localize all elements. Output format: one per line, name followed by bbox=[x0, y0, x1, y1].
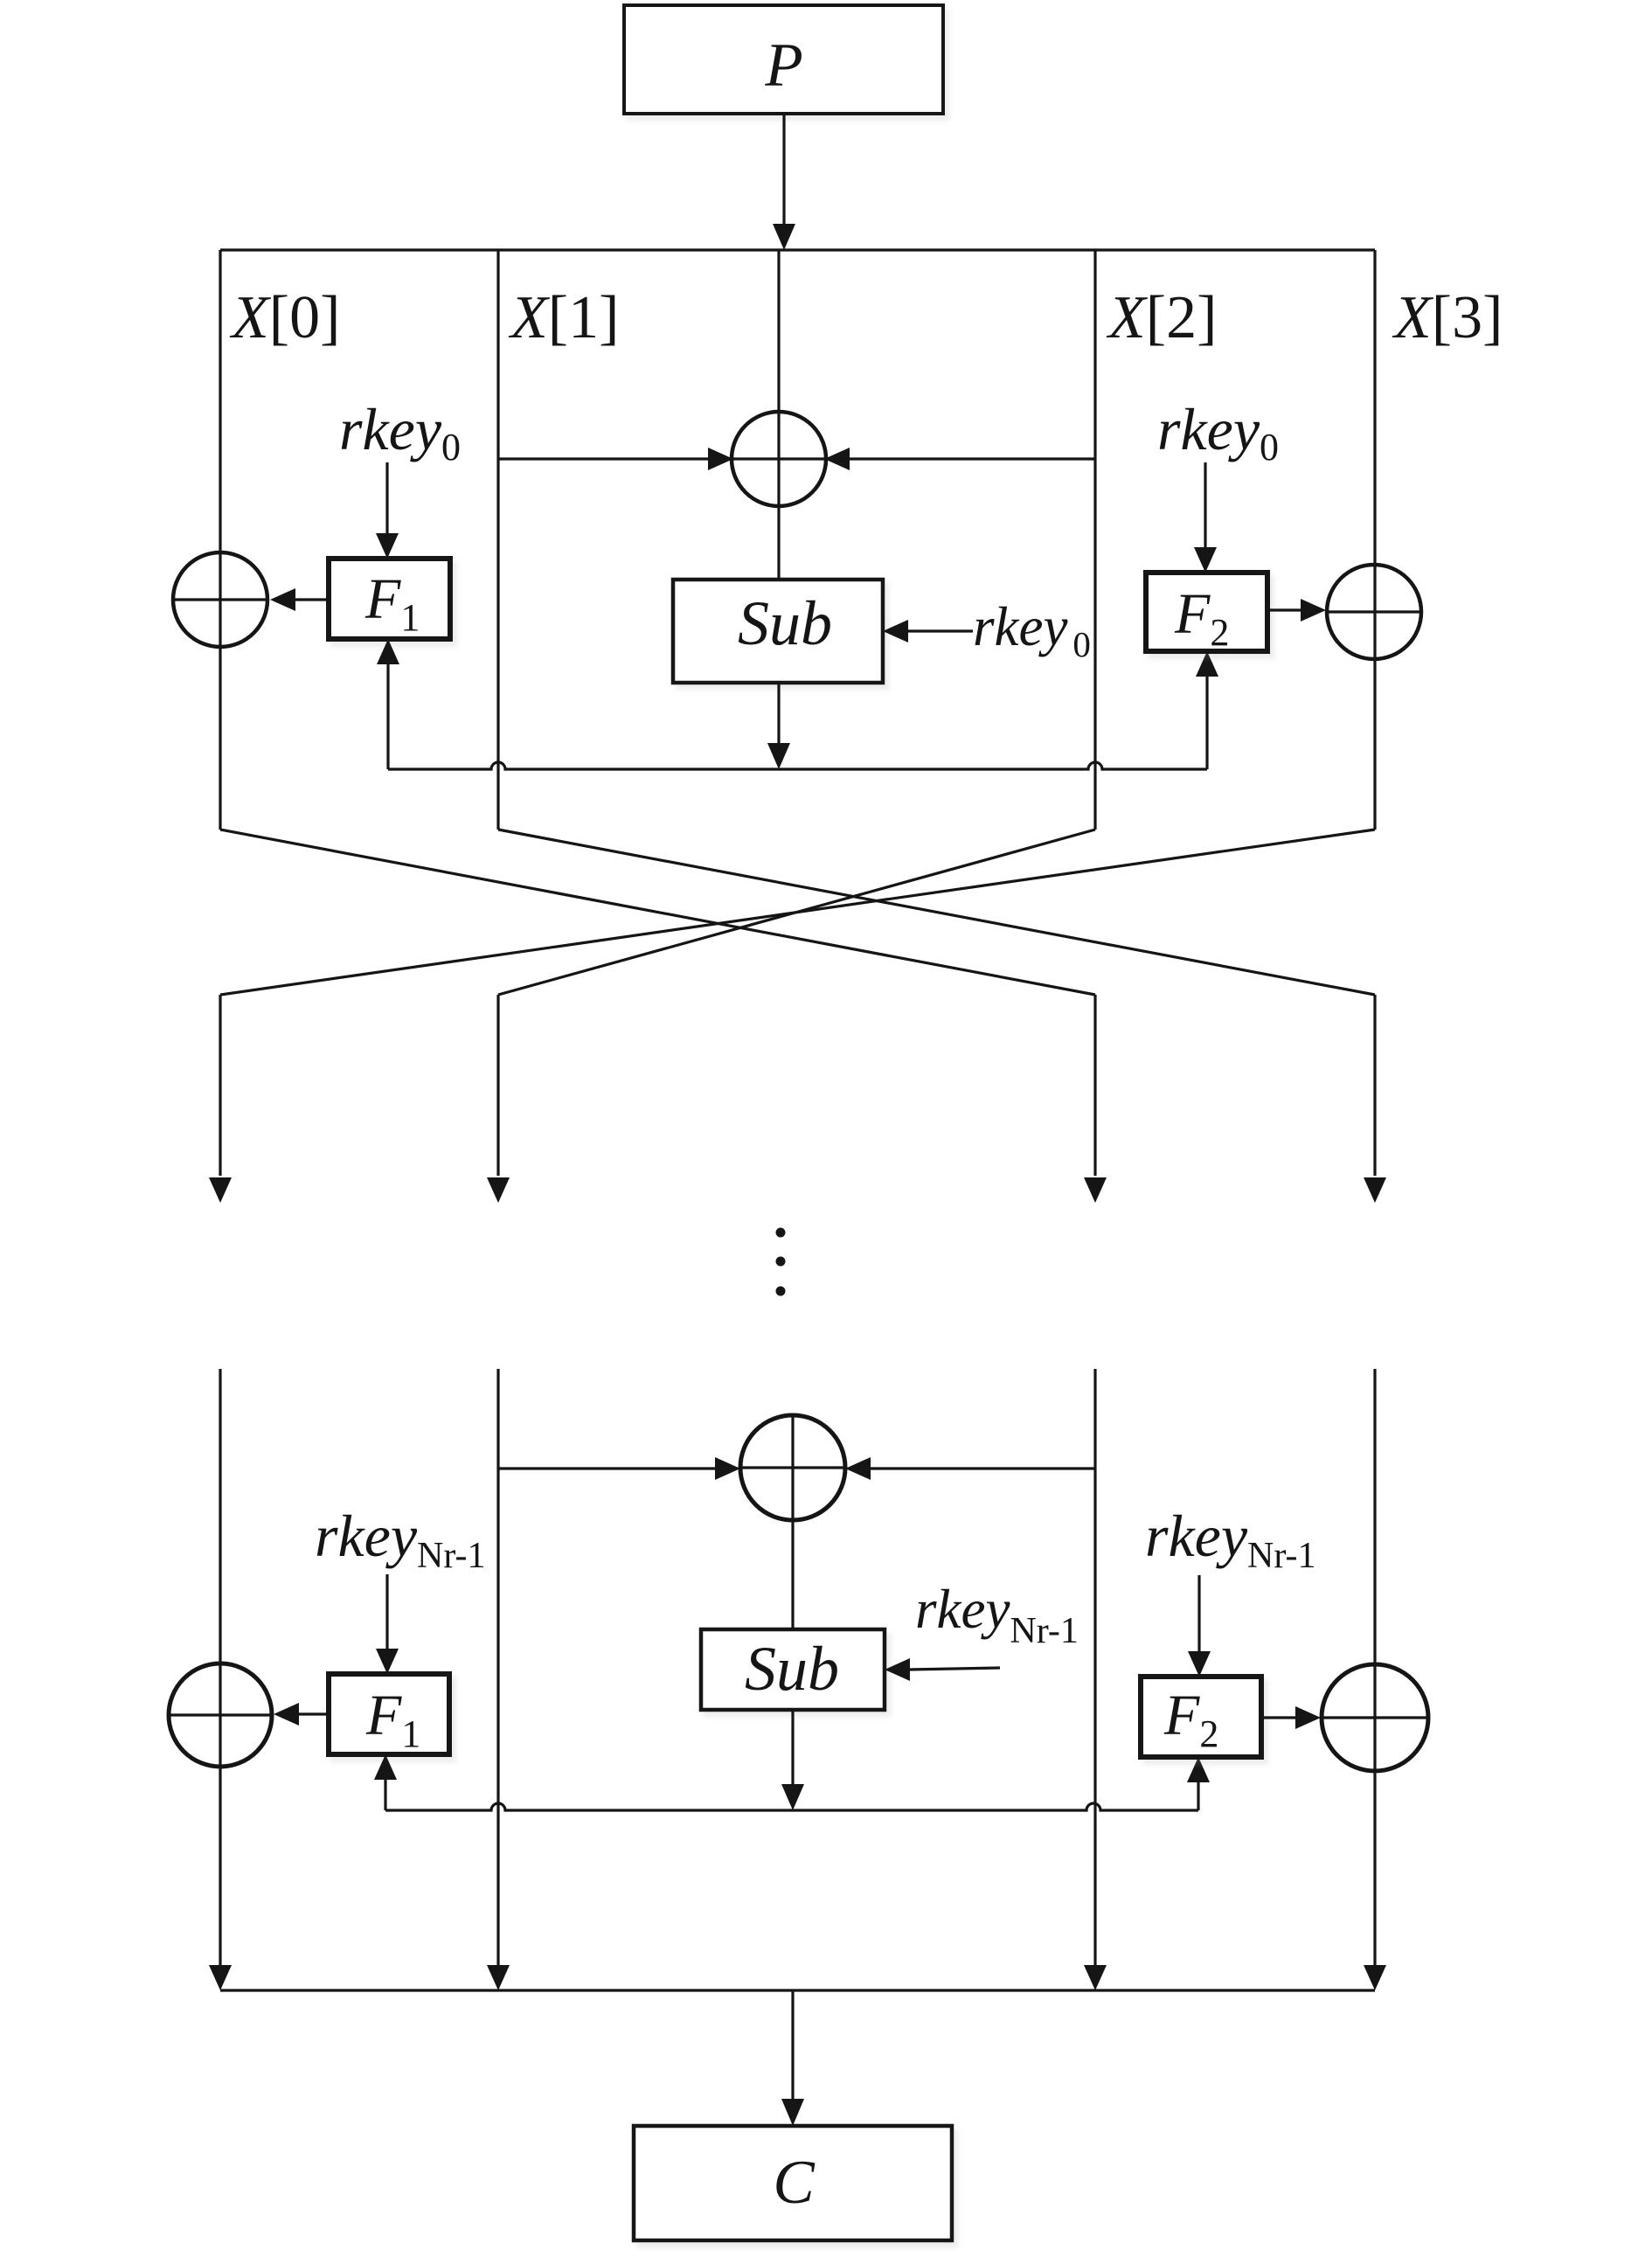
wire drop X2 with arrow bbox=[1093, 995, 1096, 1176]
box F1 round1 bbox=[329, 559, 450, 639]
wire column X[1] round2 bbox=[496, 1369, 499, 1965]
wire rkey0 to F2 with arrow bbox=[1204, 462, 1206, 549]
xor left round1 bbox=[173, 552, 267, 647]
box Sub round2 bbox=[701, 1629, 885, 1710]
wire rkey0 into Sub with arrow bbox=[906, 629, 973, 632]
node ellipsis dots bbox=[776, 1228, 786, 1238]
crossing X3 to X0 bbox=[220, 830, 1375, 995]
svg-text:X[3]: X[3] bbox=[1392, 284, 1503, 351]
wire rkeyNr-1 to F1 with arrow bbox=[385, 1574, 388, 1650]
xor U2 middle round2 bbox=[740, 1415, 845, 1520]
wire column X[1] round1 bbox=[496, 250, 499, 830]
svg-text:X[2]: X[2] bbox=[1106, 284, 1217, 351]
svg-text:Sub: Sub bbox=[738, 588, 832, 658]
wire P to top bus bbox=[782, 114, 785, 226]
box P bbox=[624, 5, 943, 114]
box F2 round1 bbox=[1146, 573, 1267, 651]
wire drop X3 with arrow bbox=[1373, 995, 1376, 1176]
wire X[1] into U2 with arrow bbox=[498, 1467, 717, 1469]
wire top bus bbox=[220, 248, 1375, 251]
wire merge to C with arrow bbox=[791, 1990, 794, 2101]
box C bbox=[634, 2126, 952, 2240]
wire feedback up to F2 with arrow bbox=[1205, 675, 1208, 769]
wire rkeyNr-1 into Sub with arrow bbox=[908, 1668, 1000, 1670]
wire column X[0] round1 bbox=[219, 250, 221, 830]
box Sub round1 bbox=[673, 580, 883, 683]
box F2 round2 bbox=[1141, 1677, 1261, 1757]
xor left round2 bbox=[169, 1663, 272, 1767]
wire Sub to feedback with arrow bbox=[777, 683, 780, 745]
wire merge bus bbox=[220, 1989, 1375, 1991]
crossing X1 to X3 bbox=[498, 830, 1375, 995]
svg-text:X[0]: X[0] bbox=[229, 284, 340, 351]
wire feedback round1 with hops bbox=[388, 762, 1207, 769]
wire column X[0] round2 bbox=[219, 1369, 221, 1965]
wire X[1] into U1 with arrow bbox=[498, 457, 710, 460]
svg-text:P: P bbox=[764, 31, 802, 100]
svg-text:C: C bbox=[773, 2149, 816, 2217]
wire X[2] into U2 with arrow bbox=[869, 1467, 1095, 1469]
wire feedback up to F2 round2 with arrow bbox=[1197, 1781, 1199, 1810]
wire Sub to feedback round2 with arrow bbox=[791, 1710, 794, 1786]
wire column X[3] round1 bbox=[1373, 250, 1376, 830]
wire feedback up to F1 round2 with arrow bbox=[384, 1778, 386, 1810]
xor right round2 bbox=[1322, 1664, 1428, 1771]
wire drop X1 with arrow bbox=[496, 995, 499, 1176]
wire X[2] into U1 with arrow bbox=[848, 457, 1095, 460]
crossing X2 to X1 bbox=[498, 830, 1095, 995]
wire F1 to left xor with arrow bbox=[297, 1712, 329, 1715]
wire F1 to left xor with arrow bbox=[294, 598, 329, 601]
wire rkey0 to F1 with arrow bbox=[385, 462, 388, 535]
wire F2 to right xor with arrow bbox=[1267, 608, 1302, 611]
wire column X[2] round1 bbox=[1093, 250, 1096, 830]
wire column X[3] round2 bbox=[1373, 1369, 1376, 1965]
svg-text:Sub: Sub bbox=[745, 1634, 839, 1704]
xor right round1 bbox=[1327, 565, 1421, 659]
wire F2 to right xor with arrow bbox=[1261, 1716, 1297, 1719]
xor U1 middle round1 bbox=[732, 412, 826, 506]
wire feedback round2 with hops bbox=[385, 1803, 1198, 1810]
crossing X0 to X2 bbox=[220, 830, 1095, 995]
wire column X[2] round2 bbox=[1093, 1369, 1096, 1965]
box F1 round2 bbox=[329, 1674, 449, 1754]
wire middle column round1 bbox=[777, 250, 780, 580]
wire rkeyNr-1 to F2 with arrow bbox=[1197, 1575, 1200, 1653]
svg-text:X[1]: X[1] bbox=[508, 284, 619, 351]
wire drop X0 with arrow bbox=[219, 995, 221, 1176]
wire feedback up to F1 with arrow bbox=[386, 663, 389, 769]
